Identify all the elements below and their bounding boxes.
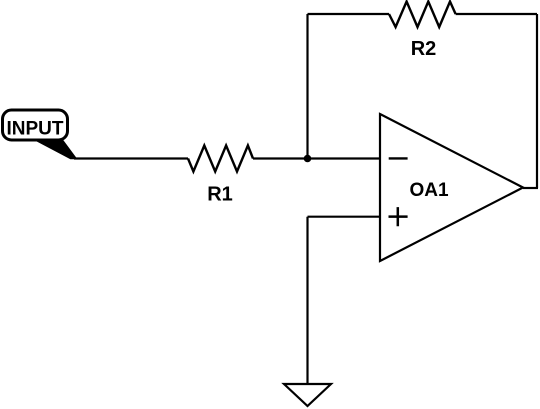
op-amp non-inverting input plus sign	[389, 207, 408, 226]
svg-text:INPUT: INPUT	[7, 119, 64, 140]
resistor R1	[188, 146, 253, 172]
node junction dot	[304, 155, 312, 163]
INPUT terminal tail	[36, 141, 77, 159]
wire input to R1	[74, 157, 188, 159]
svg-text:OA1: OA1	[409, 180, 449, 201]
wire R1 to op-amp inverting input	[253, 157, 380, 159]
wire R2 to right corner	[456, 13, 537, 15]
op-amp OA1 triangle	[380, 114, 523, 261]
wire down to ground	[306, 217, 308, 384]
INPUT terminal box	[3, 110, 68, 140]
op-amp inverting input minus sign	[389, 157, 408, 159]
wire node up to feedback	[306, 14, 308, 159]
wire top to R2	[308, 13, 390, 15]
wire non-inverting input	[308, 216, 381, 218]
ground symbol	[284, 384, 331, 406]
wire right vertical feedback to output	[536, 14, 538, 188]
resistor R2	[389, 2, 456, 28]
svg-text:R1: R1	[207, 184, 233, 206]
svg-text:R2: R2	[411, 38, 437, 60]
wire op-amp output	[523, 187, 538, 189]
